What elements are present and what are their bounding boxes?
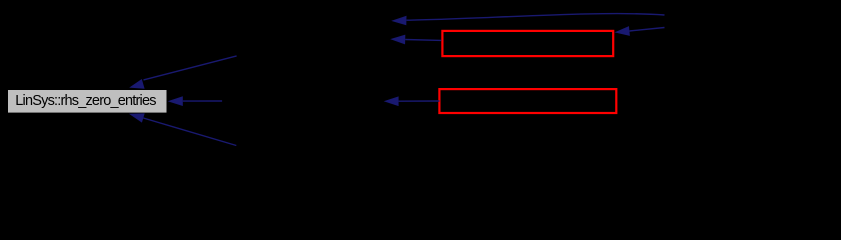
edge E1: far-right node to top middle node (long curve): [391, 14, 664, 26]
edge E7: red node 2 to middle node (horizontal): [384, 96, 440, 106]
edge E4: top middle node to grey node (diagonal down-left): [129, 56, 236, 89]
edge E2: far-right node to red node 1: [615, 26, 665, 36]
edge E6: bottom middle node to grey node (diagonal up-left): [129, 113, 236, 145]
edge E3: red node 1 to top middle node: [390, 35, 441, 45]
red node 2 (truncated caller, bottom): [439, 89, 616, 113]
red node 1 (truncated caller, top): [442, 31, 613, 56]
svg-text:LinSys::rhs_zero_entries: LinSys::rhs_zero_entries: [15, 93, 156, 109]
node LinSys::rhs_zero_entries (current function, grey): [8, 90, 168, 114]
edge E5: middle node to grey node (horizontal): [168, 96, 222, 106]
